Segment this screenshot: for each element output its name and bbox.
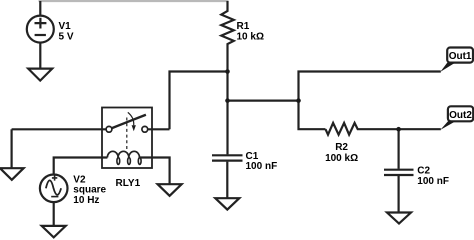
svg-text:10 Hz: 10 Hz xyxy=(73,195,99,206)
svg-text:100 nF: 100 nF xyxy=(417,176,449,187)
svg-text:100 nF: 100 nF xyxy=(246,161,278,172)
svg-text:R1: R1 xyxy=(237,21,250,32)
svg-text:100 kΩ: 100 kΩ xyxy=(325,153,358,164)
svg-text:10 kΩ: 10 kΩ xyxy=(237,31,264,42)
svg-text:square: square xyxy=(73,184,106,195)
svg-text:Out2: Out2 xyxy=(449,110,472,121)
svg-text:R2: R2 xyxy=(335,142,348,153)
svg-text:RLY1: RLY1 xyxy=(116,178,141,189)
svg-text:5 V: 5 V xyxy=(59,31,74,42)
svg-text:Out1: Out1 xyxy=(449,51,472,62)
